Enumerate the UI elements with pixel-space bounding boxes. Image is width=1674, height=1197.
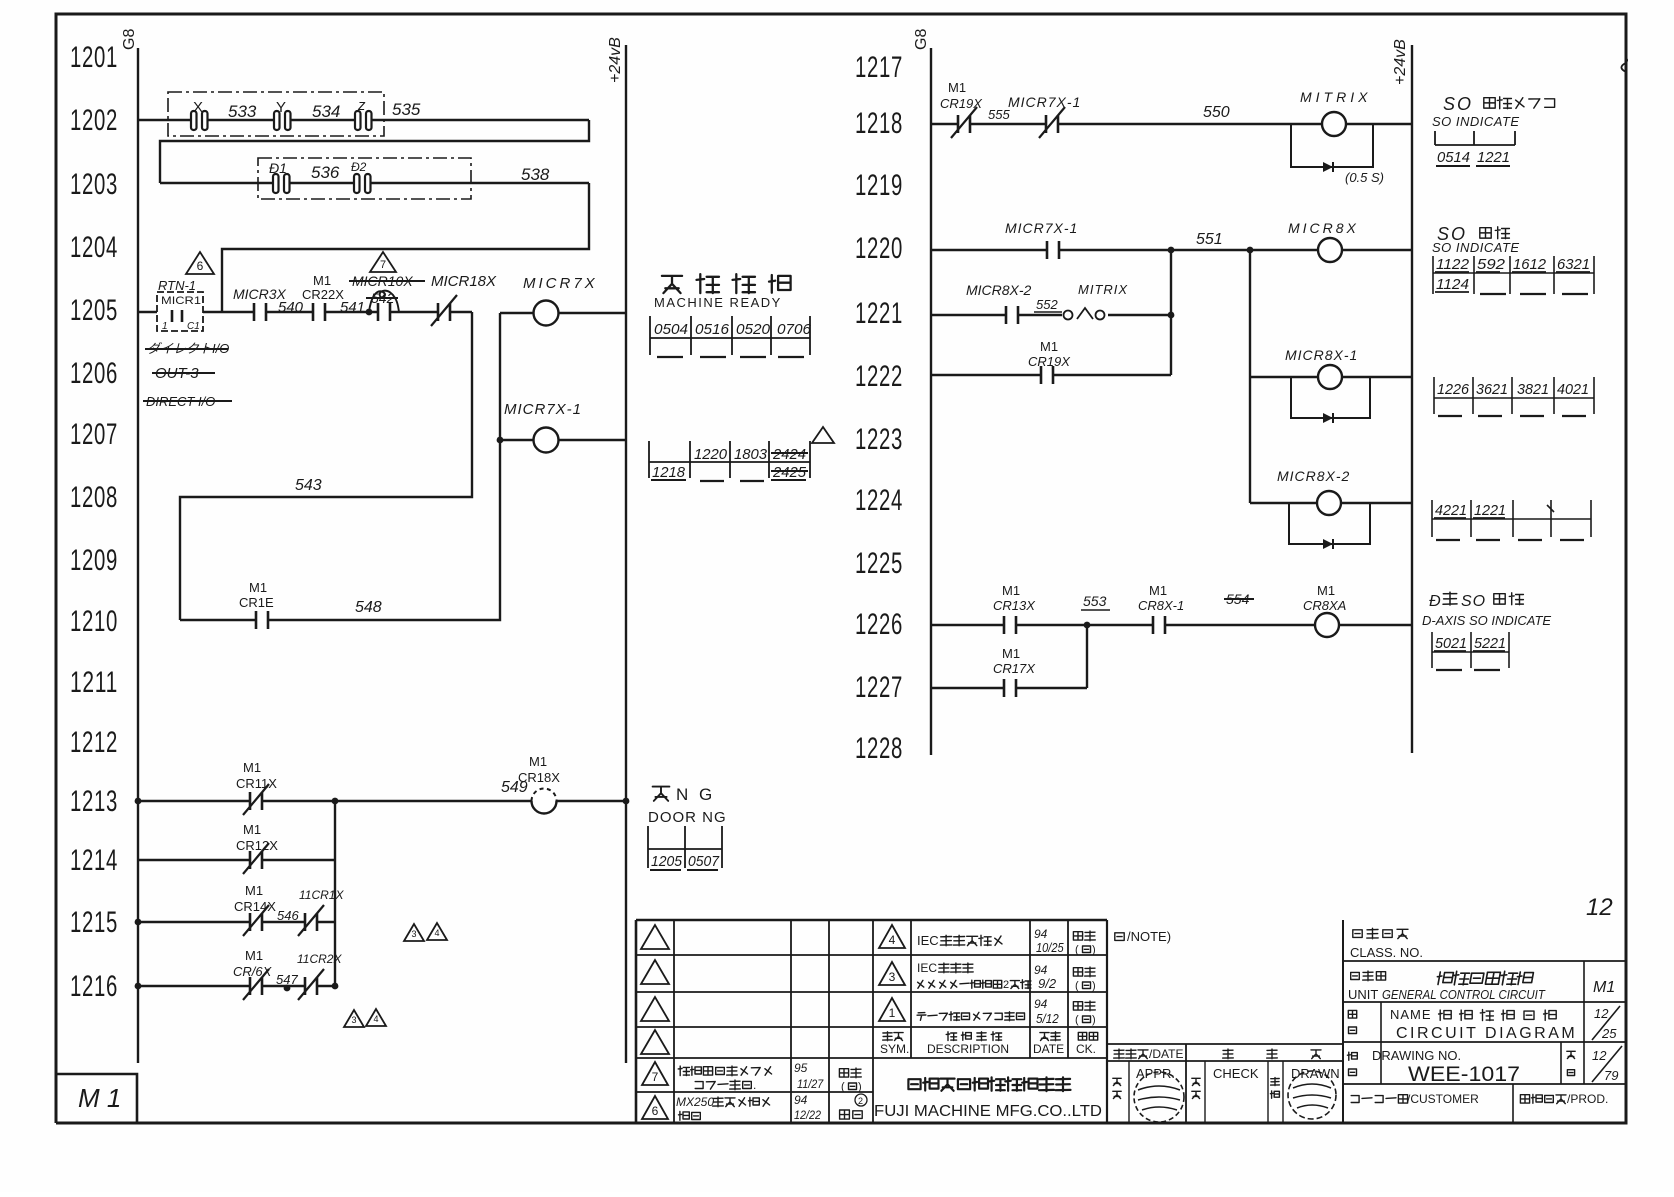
svg-text:0507: 0507 (688, 853, 720, 870)
contact MICR7X-1 NO rung 1220 (1005, 220, 1078, 259)
contact M1 CR12X NC (236, 822, 278, 874)
svg-text:0514: 0514 (1437, 149, 1470, 166)
svg-text:C1: C1 (187, 321, 200, 332)
svg-text:1219: 1219 (855, 169, 903, 202)
revision row 4 IEC (879, 925, 1096, 956)
wire rung 1214 (138, 859, 335, 861)
svg-text:): ) (858, 1081, 862, 1093)
svg-text:11/27: 11/27 (797, 1079, 824, 1092)
svg-text:IEC: IEC (917, 961, 937, 975)
cross reference table DOOR NG (648, 826, 722, 870)
svg-text:): ) (1092, 980, 1096, 992)
contact M1 CR19X NO rung 1222 (1028, 339, 1071, 384)
svg-text:SO INDICATE: SO INDICATE (1432, 114, 1520, 129)
contact MICR8X-2 NO rung 1221 (966, 282, 1062, 324)
svg-text:M1: M1 (1002, 583, 1020, 598)
svg-text:3: 3 (411, 929, 416, 939)
svg-text:M1: M1 (529, 754, 547, 769)
svg-text:MX250: MX250 (676, 1095, 714, 1109)
cross reference table 1122/592/1612/6321 (1433, 256, 1594, 294)
svg-text:DESCRIPTION: DESCRIPTION (927, 1042, 1009, 1056)
crossed-out note DIRECT I/O (143, 394, 232, 409)
crossed-out wire label 554 (1224, 591, 1254, 607)
svg-text:MICR1: MICR1 (161, 295, 201, 307)
contact D1 (269, 160, 290, 193)
contact MICR18X NC (431, 273, 497, 326)
wire rung 1221 (931, 312, 1174, 319)
svg-text:3: 3 (351, 1015, 356, 1025)
svg-text:12: 12 (1586, 894, 1613, 921)
svg-text:95: 95 (794, 1061, 808, 1075)
svg-text:RTN-1: RTN-1 (158, 278, 196, 293)
svg-text:1218: 1218 (855, 107, 903, 140)
handwritten page number 12 (1586, 894, 1613, 921)
svg-text:CLASS. NO.: CLASS. NO. (1350, 945, 1423, 960)
coil MITRIX timer (1300, 89, 1371, 136)
svg-text:1213: 1213 (70, 785, 118, 818)
svg-text:548: 548 (355, 599, 382, 616)
svg-text:1803: 1803 (734, 446, 768, 463)
contact M1 CR22X (302, 273, 365, 321)
svg-text:M1: M1 (243, 822, 261, 837)
cross reference table MACHINE READY (650, 316, 812, 357)
cross reference table 1218/1220/1803 (649, 441, 810, 481)
svg-text:MICR7X-1: MICR7X-1 (1005, 220, 1078, 236)
svg-text:Đ2: Đ2 (351, 160, 367, 174)
svg-text:546: 546 (277, 908, 299, 923)
svg-text:SO: SO (1443, 94, 1473, 114)
contact M1 CR11X NC (236, 760, 277, 815)
svg-text:MICR7X: MICR7X (523, 275, 598, 292)
contact 11CR2X NC (297, 952, 342, 1000)
revision table header row (880, 1032, 1098, 1056)
svg-text:2424: 2424 (772, 446, 806, 463)
svg-text:MICR7X-1: MICR7X-1 (1008, 94, 1081, 110)
svg-text:z: z (357, 97, 366, 114)
coil MICR7X (500, 275, 626, 326)
contact X (190, 99, 208, 130)
svg-text:94: 94 (1034, 997, 1048, 1011)
contact M1 CR17X rung 1227 (993, 646, 1036, 697)
svg-text:3821: 3821 (1517, 381, 1549, 398)
svg-text:1217: 1217 (855, 51, 903, 84)
svg-text:549: 549 (501, 779, 528, 796)
svg-text:/NOTE): /NOTE) (1127, 929, 1171, 944)
approval stamp DRAWN (1288, 1071, 1336, 1119)
svg-text:DRAWING NO.: DRAWING NO. (1372, 1048, 1461, 1063)
contact Y (273, 99, 291, 130)
svg-text:(: ( (1075, 1014, 1079, 1026)
svg-text:(: ( (1075, 944, 1079, 956)
right rung number column 1217-1228 (855, 51, 903, 765)
svg-text:1226: 1226 (1437, 381, 1470, 398)
wire label 535 (392, 100, 421, 119)
svg-text:+24vB: +24vB (1392, 39, 1409, 85)
revision triangle 6 (186, 252, 214, 274)
svg-text:SYM.: SYM. (880, 1042, 909, 1056)
wire label 548 (355, 599, 382, 616)
svg-text:CR8X-1: CR8X-1 (1138, 598, 1184, 613)
parallel branch bus 1213-1216 (334, 801, 336, 986)
svg-text:CR12X: CR12X (236, 838, 278, 853)
svg-text:MACHINE READY: MACHINE READY (654, 295, 782, 310)
svg-text:CR17X: CR17X (993, 661, 1036, 676)
relay box MICR1 RTN-1 (157, 278, 203, 332)
contact M1 CR16X NC (233, 948, 298, 1000)
svg-text:1215: 1215 (70, 906, 118, 939)
svg-text:CR1E: CR1E (239, 595, 274, 610)
svg-text:1203: 1203 (70, 168, 118, 201)
svg-text:1: 1 (162, 321, 168, 332)
svg-text:4221: 4221 (1435, 502, 1467, 519)
svg-text:MICR8X-2: MICR8X-2 (966, 282, 1032, 298)
contact MICR7X-1 NC rung 1218 (1008, 94, 1081, 138)
wire label 533 (228, 102, 257, 121)
contact M1 CR8X-1 rung 1226 (1138, 583, 1184, 634)
svg-text:MICR18X: MICR18X (431, 273, 497, 290)
coil M1 CR18X (518, 754, 560, 814)
svg-text:1201: 1201 (70, 41, 118, 74)
note cell (1115, 929, 1171, 944)
net +24VB right rail label (1392, 39, 1409, 85)
svg-text:MICR7X-1: MICR7X-1 (504, 401, 582, 418)
svg-text:535: 535 (392, 100, 421, 119)
note MACHINE READY heading (654, 274, 791, 310)
contact M1 CR13X rung 1226 (993, 583, 1036, 634)
approval cells (1113, 1066, 1340, 1099)
contact 11CR1X NC (298, 888, 344, 936)
right +24VB bus rail (1411, 45, 1413, 753)
timer diode branch 0.5S (1291, 124, 1384, 185)
revision row 7 (642, 1061, 862, 1093)
cross reference table 1226/3621/3821/4021 (1434, 377, 1594, 416)
svg-text:540: 540 (278, 299, 304, 316)
wire label 553 (1081, 593, 1110, 610)
wire 543 loop down-left (180, 312, 472, 620)
svg-text:1221: 1221 (1477, 149, 1510, 166)
cross reference table 5021/5221 (1432, 632, 1509, 670)
svg-text:1205: 1205 (70, 294, 118, 327)
contact M1 CR1E (239, 580, 274, 629)
svg-text:1207: 1207 (70, 418, 118, 451)
svg-text:1220: 1220 (694, 446, 728, 463)
svg-text:1206: 1206 (70, 357, 118, 390)
svg-text:CR13X: CR13X (993, 598, 1036, 613)
contact D2 (351, 160, 371, 193)
dash-dot enclosure rung 1203 (258, 158, 471, 199)
svg-text:5/12: 5/12 (1036, 1011, 1059, 1026)
note D-AXIS SO INDICATE heading (1422, 592, 1551, 628)
svg-text:G8: G8 (913, 29, 930, 50)
svg-text:5021: 5021 (1435, 635, 1467, 652)
coil M1 CR8XA (1303, 583, 1346, 637)
svg-text:534: 534 (312, 102, 340, 121)
svg-text:552: 552 (1036, 297, 1058, 312)
svg-text:IEC: IEC (917, 933, 939, 948)
svg-text:Đ1: Đ1 (269, 160, 287, 176)
svg-text:1216: 1216 (70, 970, 118, 1003)
svg-text:MITRIX: MITRIX (1078, 282, 1128, 297)
svg-text:M1: M1 (948, 80, 966, 95)
thermal element MITRIX rung 1221 (1062, 282, 1128, 320)
wire rung 1222 (931, 374, 1171, 376)
svg-text:/CUSTOMER: /CUSTOMER (1407, 1092, 1479, 1106)
svg-text:1222: 1222 (855, 360, 903, 393)
svg-text:0520: 0520 (736, 321, 771, 338)
svg-text:CK.: CK. (1076, 1042, 1096, 1056)
class no cell (1350, 928, 1423, 960)
svg-text:CIRCUIT DIAGRAM: CIRCUIT DIAGRAM (1396, 1025, 1577, 1042)
wire 538 return to rung 1205 (222, 183, 589, 312)
svg-text:1205: 1205 (651, 853, 683, 870)
svg-text:1212: 1212 (70, 726, 118, 759)
svg-text:M1: M1 (245, 948, 263, 963)
svg-text:M1: M1 (243, 760, 261, 775)
svg-text:1221: 1221 (855, 297, 903, 330)
svg-text:MICR8X-1: MICR8X-1 (1285, 347, 1358, 363)
svg-text:5221: 5221 (1474, 635, 1506, 652)
svg-text:MICR8X: MICR8X (1288, 220, 1359, 236)
branch bus 1220-1222 (1170, 250, 1172, 375)
cross reference table 4221/1221 (1432, 500, 1591, 540)
svg-text:1124: 1124 (1436, 276, 1469, 293)
note SO INDICATE heading 2 (1432, 224, 1520, 255)
unit name cell (1348, 971, 1615, 1002)
svg-text:1122: 1122 (1436, 256, 1470, 273)
svg-text:1208: 1208 (70, 481, 118, 514)
right bus rail G8 (930, 48, 932, 755)
svg-text:CR14X: CR14X (234, 899, 276, 914)
svg-text:1218: 1218 (652, 464, 686, 481)
svg-text:1226: 1226 (855, 608, 903, 641)
svg-text:(: ( (1075, 980, 1079, 992)
date header row (1114, 1047, 1321, 1061)
approval block frame (1107, 1044, 1343, 1123)
crossed-out note OUT-3 (152, 365, 215, 382)
coil MICR8X-1 (1250, 347, 1412, 389)
svg-text:/PROD.: /PROD. (1567, 1092, 1608, 1106)
wire rung 1210 CR1E branch 548 (180, 313, 500, 620)
svg-text:1227: 1227 (855, 671, 903, 704)
svg-text:M1: M1 (1149, 583, 1167, 598)
wire label 538 (521, 165, 550, 184)
svg-text:25: 25 (1601, 1026, 1617, 1041)
svg-text:1224: 1224 (855, 484, 903, 517)
contact MICR3X (233, 286, 304, 321)
svg-text:M1: M1 (1593, 979, 1615, 996)
svg-text:11CR1X: 11CR1X (299, 888, 344, 902)
svg-text:1: 1 (889, 1006, 896, 1020)
crossed-out note direct I/O (145, 341, 229, 356)
branch bus 1220-1224 (1249, 250, 1251, 503)
svg-text:N G: N G (676, 785, 715, 804)
svg-text:(: ( (841, 1081, 845, 1093)
drawing number cell (1347, 1046, 1622, 1086)
revision row 1 parts (879, 997, 1096, 1026)
svg-text:6: 6 (197, 259, 204, 273)
svg-text:1612: 1612 (1513, 256, 1547, 273)
svg-text:0516: 0516 (695, 321, 730, 338)
svg-text:541: 541 (340, 299, 365, 316)
svg-text:G8: G8 (121, 29, 138, 50)
dash-dot enclosure rung 1202 (168, 92, 384, 136)
contact M1 CR19X NC rung 1218 (940, 80, 1010, 138)
svg-text:12/22: 12/22 (794, 1110, 822, 1123)
crossed-out contact 542 with correction loop (366, 290, 399, 321)
wire label 536 (311, 163, 340, 182)
wire rung 1218 (931, 123, 1412, 125)
svg-text:94: 94 (1034, 927, 1048, 941)
svg-text:94: 94 (794, 1093, 808, 1107)
wire rung 1203 (160, 182, 589, 184)
svg-text:CR19X: CR19X (1028, 354, 1071, 369)
revision triangle 7 small (370, 252, 396, 272)
svg-text:UNIT: UNIT (1348, 987, 1378, 1002)
svg-text:533: 533 (228, 102, 257, 121)
note SO INDICATE timer heading (1432, 94, 1555, 129)
svg-text:94: 94 (1034, 963, 1048, 977)
contact Z (354, 97, 372, 130)
svg-text:MICR8X-2: MICR8X-2 (1277, 468, 1350, 484)
wire rung 1226 (931, 622, 1412, 629)
wire rung 1216 (135, 983, 339, 992)
svg-text:WEE-1017: WEE-1017 (1408, 1063, 1520, 1086)
net G8 left bus label (121, 29, 138, 50)
svg-text:1202: 1202 (70, 104, 118, 137)
wire label 534 (312, 102, 340, 121)
svg-text:Đ: Đ (1429, 593, 1441, 610)
svg-text:1225: 1225 (855, 547, 903, 580)
svg-text:536: 536 (311, 163, 340, 182)
crossed-out label MICR10X (349, 273, 425, 289)
svg-text:(0.5 S): (0.5 S) (1345, 170, 1384, 185)
svg-text:547: 547 (276, 972, 298, 987)
svg-text:12: 12 (1594, 1006, 1609, 1021)
svg-text:M1: M1 (249, 580, 267, 595)
svg-text:DATE: DATE (1033, 1042, 1064, 1056)
svg-text:543: 543 (295, 477, 322, 494)
svg-text:2: 2 (858, 1096, 863, 1106)
svg-text:0504: 0504 (654, 321, 688, 338)
wire rung 1220 (931, 247, 1412, 254)
revision row 3 IEC (879, 961, 1096, 992)
left +24VB bus rail (625, 45, 627, 1063)
cross reference table 0514/1221 (1435, 131, 1515, 166)
approval stamp APPR (1134, 1072, 1184, 1122)
svg-text:2: 2 (1003, 979, 1009, 991)
svg-text:1221: 1221 (1474, 502, 1506, 519)
svg-text:551: 551 (1196, 231, 1223, 248)
svg-text:M1: M1 (1040, 339, 1058, 354)
svg-text:2425: 2425 (772, 464, 807, 481)
svg-text:550: 550 (1203, 104, 1230, 121)
svg-text:M1: M1 (1002, 646, 1020, 661)
wire label 550 (1203, 104, 1230, 121)
svg-text:/DATE: /DATE (1149, 1047, 1183, 1061)
revision triangles 3 and 4 pair A (404, 923, 447, 941)
svg-text:0706: 0706 (777, 321, 812, 338)
svg-text:MITRIX: MITRIX (1300, 89, 1371, 105)
svg-text:4: 4 (434, 928, 439, 938)
wire label 543 (295, 477, 322, 494)
net G8 right bus label (913, 29, 930, 50)
svg-text:DRAWN: DRAWN (1291, 1066, 1340, 1081)
wire rung 1227 (931, 625, 1087, 688)
svg-text:): ) (1092, 944, 1096, 956)
svg-text:1210: 1210 (70, 605, 118, 638)
svg-text:CR8XA: CR8XA (1303, 598, 1346, 613)
wire label 549 (501, 779, 528, 796)
svg-text:M1: M1 (1317, 583, 1335, 598)
company name cell (874, 1077, 1102, 1120)
coil MICR8X-2 (1250, 468, 1412, 515)
svg-text:1214: 1214 (70, 844, 118, 877)
svg-text:GENERAL CONTROL CIRCUIT: GENERAL CONTROL CIRCUIT (1382, 987, 1546, 1002)
svg-text:1223: 1223 (855, 423, 903, 456)
title block revision table frame (636, 920, 1107, 1123)
border squiggle mark (1621, 58, 1627, 72)
svg-text:FUJI MACHINE MFG.CO..LTD: FUJI MACHINE MFG.CO..LTD (874, 1103, 1102, 1120)
wire label 551 (1196, 231, 1223, 248)
svg-text:592: 592 (1477, 256, 1506, 273)
wire rung 1215 (135, 919, 335, 926)
svg-text:.: . (753, 1078, 756, 1092)
wire rung 1213 (135, 798, 630, 805)
diode branch MICR8X-2 (1289, 503, 1370, 549)
svg-text:CHECK: CHECK (1213, 1066, 1259, 1081)
svg-text:7: 7 (380, 259, 386, 271)
svg-text:11CR2X: 11CR2X (297, 952, 342, 966)
svg-text:1204: 1204 (70, 231, 118, 264)
svg-text:X: X (193, 99, 203, 116)
svg-text:7: 7 (652, 1070, 659, 1084)
svg-text:1211: 1211 (70, 666, 118, 699)
sheet label M1 box (56, 1074, 137, 1123)
left bus rail G8 (137, 48, 139, 1063)
svg-text:10/25: 10/25 (1036, 940, 1064, 955)
coil MICR7X-1 (497, 401, 626, 453)
svg-text:SO: SO (1461, 593, 1486, 610)
svg-text:1209: 1209 (70, 544, 118, 577)
svg-text:Y: Y (276, 99, 286, 116)
svg-text:M 1: M 1 (78, 1083, 121, 1113)
svg-text:SO INDICATE: SO INDICATE (1432, 240, 1520, 255)
svg-text:4021: 4021 (1557, 381, 1589, 398)
svg-text:3: 3 (889, 970, 896, 984)
circuit diagram name cell (1348, 1006, 1620, 1042)
revision triangles 3 and 4 pair B (344, 1009, 386, 1027)
wire rung 1202 (138, 119, 589, 121)
svg-text:79: 79 (1604, 1068, 1618, 1083)
svg-text:553: 553 (1083, 593, 1107, 609)
svg-text:NAME: NAME (1390, 1007, 1432, 1022)
customer cell (1351, 1092, 1608, 1106)
svg-text:CR11X: CR11X (236, 776, 277, 791)
revision triangle 1 mid (812, 427, 834, 443)
contact M1 CR14X NC (234, 883, 299, 936)
svg-text:D-AXIS SO INDICATE: D-AXIS SO INDICATE (1422, 613, 1551, 628)
net +24VB left rail label (607, 37, 624, 83)
svg-text:DOOR NG: DOOR NG (648, 809, 727, 826)
svg-text:4: 4 (889, 933, 896, 947)
left rung number column 1201-1216 (70, 41, 118, 1003)
svg-text:12: 12 (1592, 1048, 1607, 1063)
diode branch MICR8X-1 (1291, 377, 1370, 423)
svg-text:6: 6 (652, 1104, 659, 1118)
svg-text:+24vB: +24vB (607, 37, 624, 83)
svg-text:CR22X: CR22X (302, 287, 344, 302)
svg-text:538: 538 (521, 165, 550, 184)
